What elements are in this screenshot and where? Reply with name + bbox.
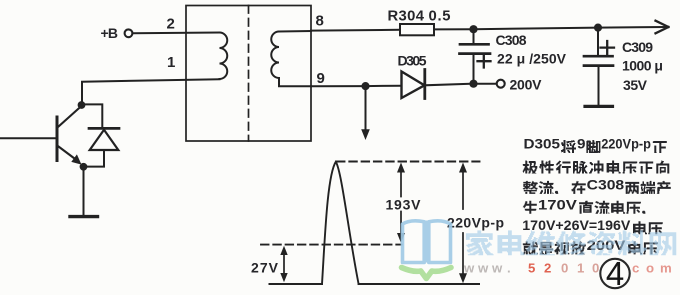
arrowhead 220Vp-p bottom <box>459 273 467 283</box>
damper diode bottom lead to emitter node <box>86 150 104 167</box>
junction dot node C309 top <box>594 24 602 32</box>
arrowhead 27V top <box>280 246 287 255</box>
svg-text:D305: D305 <box>524 137 561 152</box>
wire secondary top to pin 8 <box>279 30 311 33</box>
arrowhead 27V bottom <box>280 273 287 282</box>
junction dot emitter node <box>80 163 88 171</box>
waveform pulse <box>322 162 359 284</box>
ground bar below transistor <box>70 215 98 218</box>
capacitor C308 plates <box>460 44 491 53</box>
waveform baseline left segment <box>270 283 323 285</box>
svg-text:4: 4 <box>606 255 624 292</box>
svg-text:170V+26V=196V: 170V+26V=196V <box>522 218 631 233</box>
diode D305 triangle <box>402 72 425 99</box>
svg-text:D305: D305 <box>398 53 427 69</box>
capacitor C309 plates <box>584 56 613 65</box>
svg-text:9: 9 <box>317 70 325 87</box>
dimension arrow 220Vp-p shafts <box>462 168 464 277</box>
wire pin 9 to node W <box>311 85 366 87</box>
damper diode triangle <box>90 130 119 150</box>
wire D305 to node D (C308 bottom) <box>425 84 474 86</box>
svg-text:R304: R304 <box>388 9 425 25</box>
wire emitter node to ground <box>83 167 85 215</box>
arrowhead 193V bottom <box>397 233 405 243</box>
resistor R304 body <box>400 24 434 35</box>
svg-text:C309: C309 <box>622 39 653 55</box>
svg-text:220Vp-p: 220Vp-p <box>447 215 504 231</box>
svg-text:0.5: 0.5 <box>429 9 451 25</box>
svg-text:2: 2 <box>167 16 175 33</box>
transformer core dashed line <box>248 6 250 142</box>
capacitor C308 polarity plus <box>478 55 491 68</box>
capacitor C308 bottom lead <box>473 55 475 84</box>
note text line 6: 就是视放200V电压 <box>523 241 538 254</box>
svg-text:1: 1 <box>167 54 175 71</box>
wire node C309 to output arrow <box>598 26 666 29</box>
svg-text:+B: +B <box>101 25 119 41</box>
node +B terminal <box>125 29 133 37</box>
svg-text:www.520101.com: www.520101.com <box>463 261 672 276</box>
transformer secondary winding (pins 8-9) <box>271 32 279 79</box>
note text line 4: 生170V直流电压， <box>523 201 537 214</box>
note text line 2: 极性行脉冲电压正向 <box>523 161 538 174</box>
watermark text 家电维修资料网 <box>466 230 676 255</box>
svg-text:35V: 35V <box>623 77 648 93</box>
circled figure number 4 <box>600 255 629 292</box>
svg-text:C308: C308 <box>587 178 625 193</box>
transistor Q emitter arrowhead <box>71 154 81 164</box>
wire pin 1 to transistor collector <box>82 79 220 103</box>
svg-text:27V: 27V <box>251 260 279 276</box>
capacitor C309 bottom lead <box>598 67 600 105</box>
output arrowhead <box>656 21 669 34</box>
transistor Q base bar <box>56 117 59 161</box>
arrowhead 220Vp-p top <box>459 163 467 173</box>
svg-text:220Vp-p: 220Vp-p <box>601 137 651 152</box>
waveform 27V dashed level line <box>261 244 402 246</box>
transistor Q collector stroke <box>59 107 81 127</box>
svg-text:8: 8 <box>316 13 324 30</box>
svg-text:193V: 193V <box>386 197 422 213</box>
junction dot node C308 top <box>469 25 477 33</box>
svg-text:1000 μ: 1000 μ <box>622 58 663 74</box>
wire secondary bottom to pin 9 <box>279 78 311 86</box>
transistor Q base lead <box>0 137 57 139</box>
capacitor C309 polarity plus <box>601 41 615 54</box>
dimension arrow 193V shafts <box>400 168 402 237</box>
transformer primary winding (pins 2-1) <box>220 33 228 80</box>
arrowhead 193V top <box>397 163 405 173</box>
dimension arrow 27V shaft <box>283 250 285 278</box>
ground bar below C309 <box>585 105 613 108</box>
watermark book icon green base <box>402 268 452 279</box>
wire node W down arrow (to waveform) <box>365 88 367 131</box>
junction dot node W <box>361 82 369 90</box>
wire collector node to damper diode top <box>82 104 102 127</box>
node 200V terminal circle <box>497 80 505 88</box>
wire node D to 200V terminal <box>474 83 497 85</box>
junction dot collector node <box>78 101 86 109</box>
svg-text:22 μ /250V: 22 μ /250V <box>497 50 567 66</box>
capacitor C309 top lead <box>597 28 599 56</box>
wire +B to transformer pin 2 <box>133 32 220 35</box>
svg-text:200V: 200V <box>510 76 543 92</box>
transistor Q emitter stroke <box>59 147 77 160</box>
wire pin 8 to R304 <box>311 29 400 32</box>
watermark book icon blue pages <box>403 221 451 263</box>
wire R304 to node C308 <box>434 28 474 30</box>
waveform baseline right segment <box>359 283 479 285</box>
svg-text:9: 9 <box>577 137 586 152</box>
junction dot node D <box>469 80 477 88</box>
diode D305 cathode bar <box>423 70 426 99</box>
transformer T core box <box>186 6 311 142</box>
capacitor C308 top lead <box>473 29 475 43</box>
wire node C308 to node C309 <box>474 28 599 30</box>
damper diode cathode bar <box>89 127 119 130</box>
waveform peak dashed level line <box>337 161 480 163</box>
wire node W to diode D305 <box>366 85 402 87</box>
svg-text:C308: C308 <box>496 32 527 48</box>
note text line 3: 整流，在C308两端产 <box>523 181 538 194</box>
node W down arrowhead <box>361 129 370 140</box>
svg-text:170V: 170V <box>538 197 578 212</box>
